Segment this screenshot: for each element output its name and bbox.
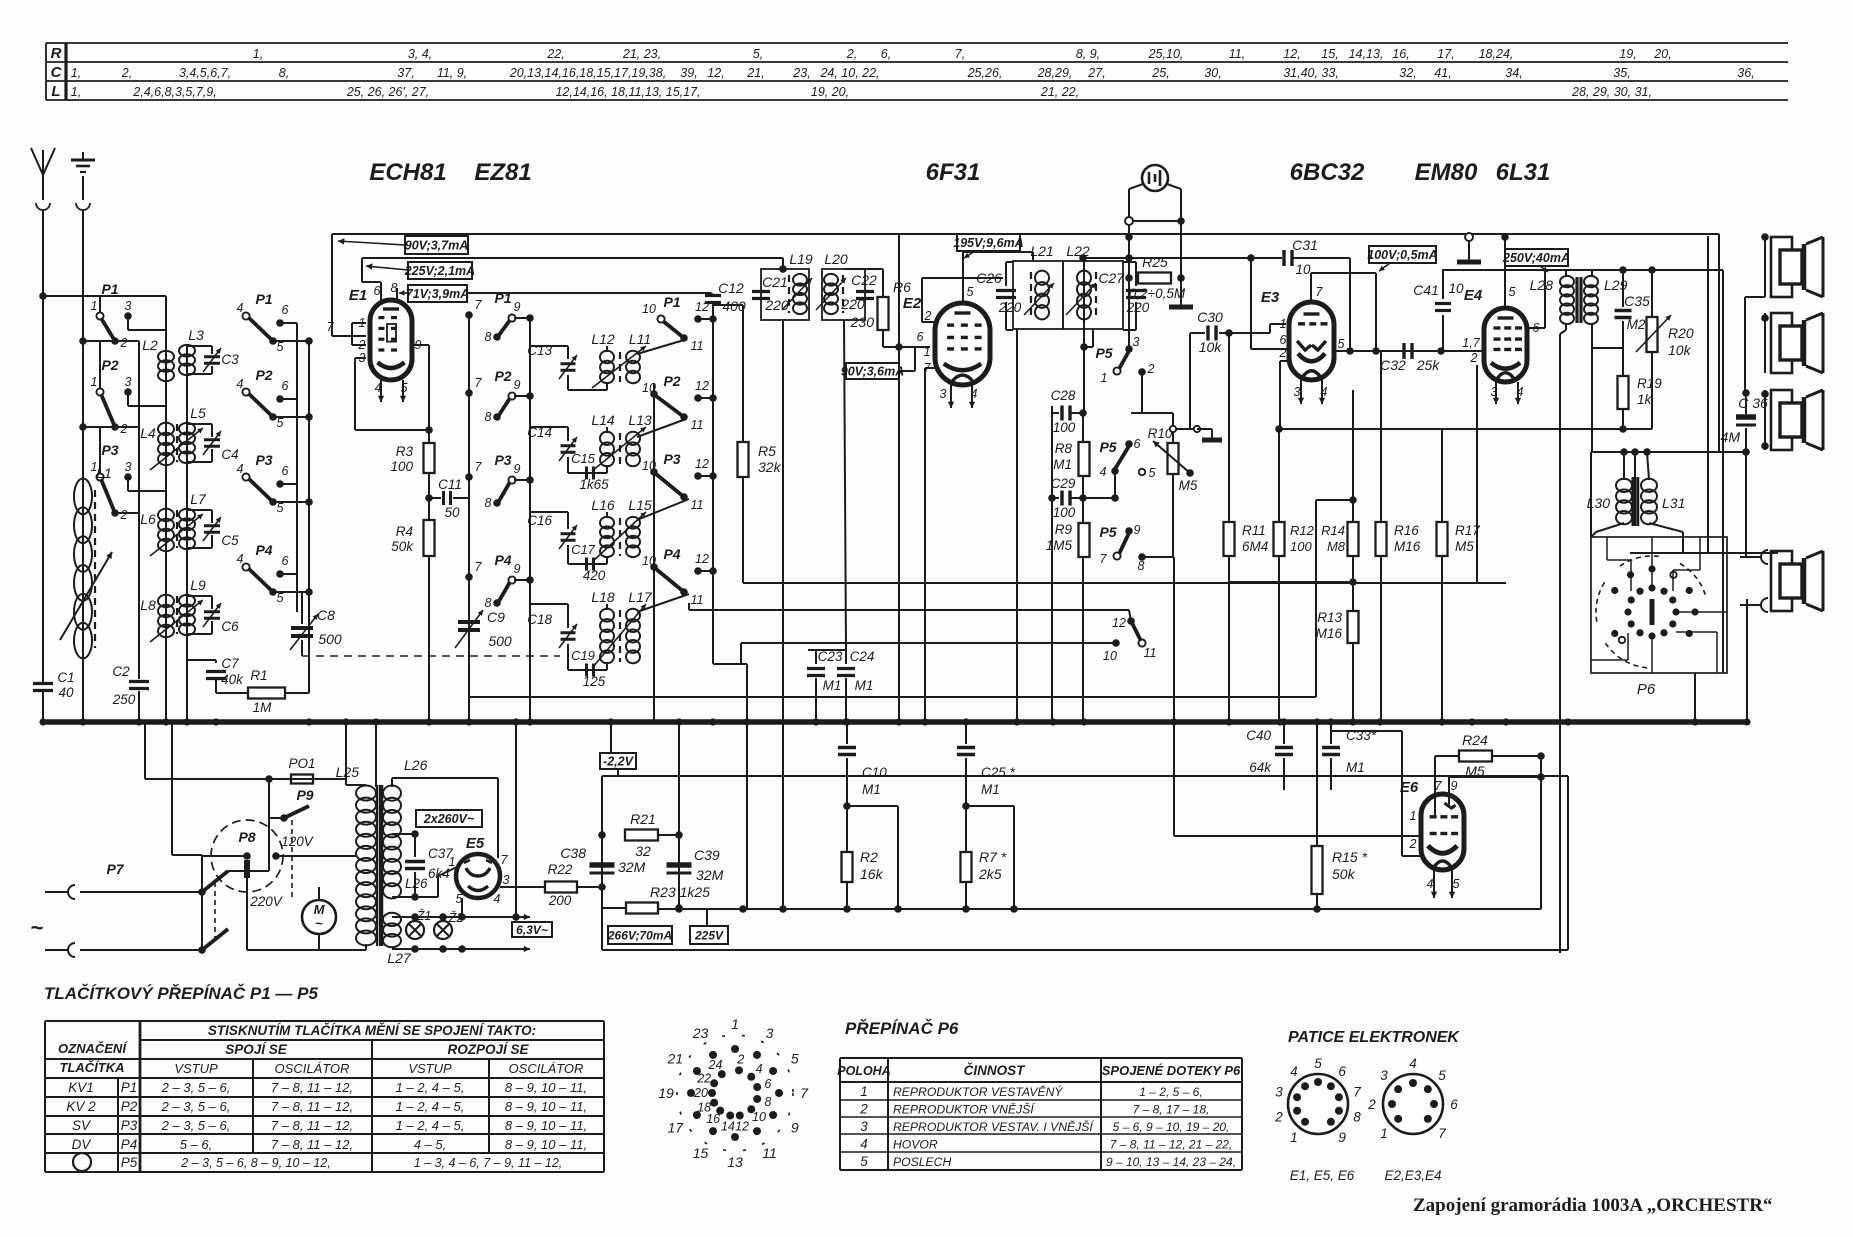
svg-text:32M: 32M	[618, 859, 646, 875]
coil L3	[179, 327, 204, 375]
svg-text:R24: R24	[1462, 732, 1488, 748]
voltage box 195V 9.6mA	[957, 234, 1020, 251]
coil L11	[626, 331, 651, 383]
wire to E2 pin6	[883, 346, 930, 348]
svg-text:L31: L31	[1662, 495, 1685, 511]
socket noval E1 E5 E6	[1274, 1056, 1361, 1145]
E2 labels	[903, 285, 978, 401]
voltage box 250V 40mA	[1505, 249, 1568, 266]
node R24 right	[1537, 752, 1545, 760]
coil L2	[142, 337, 174, 381]
wire L11 to contact 11	[637, 340, 684, 354]
core L6-L7	[176, 510, 178, 548]
coil L20	[824, 251, 848, 314]
svg-text:R14: R14	[1321, 523, 1345, 538]
trimmer capacitor C16	[527, 512, 607, 564]
svg-text:10: 10	[1103, 649, 1117, 663]
socket heptal E2 E3 E4	[1367, 1056, 1458, 1141]
resistor R22	[545, 882, 577, 893]
svg-text:OZNAČENÍ: OZNAČENÍ	[58, 1041, 128, 1056]
R16 to bus	[1380, 556, 1382, 722]
coil L21	[1030, 243, 1053, 319]
svg-text:E4: E4	[1464, 287, 1483, 304]
E1 pin9 stub	[412, 344, 429, 346]
svg-text:P4: P4	[255, 542, 272, 558]
bus drop center	[375, 722, 377, 787]
bias line y776	[602, 775, 1568, 777]
R21 labels	[630, 811, 656, 859]
capacitor C21	[752, 274, 789, 313]
wire C33 to E6 area	[1331, 730, 1402, 732]
switch P2 section d (contacts 10-12-11)	[642, 373, 717, 432]
svg-text:R15 *: R15 *	[1332, 849, 1368, 865]
svg-text:1 – 2, 4 – 5,: 1 – 2, 4 – 5,	[396, 1118, 465, 1133]
coil L9	[179, 577, 206, 635]
svg-text:L1: L1	[96, 465, 112, 481]
svg-text:1M5: 1M5	[1046, 538, 1073, 553]
ground terminal	[71, 152, 95, 210]
wire band line to P5-12	[689, 609, 1129, 611]
svg-text:6,: 6,	[881, 47, 891, 61]
coil L1	[60, 465, 112, 658]
svg-text:11, 9,: 11, 9,	[437, 66, 467, 80]
svg-text:C16: C16	[527, 513, 552, 528]
svg-text:4 – 5,: 4 – 5,	[414, 1137, 447, 1152]
svg-text:E2: E2	[903, 295, 922, 312]
svg-text:12,: 12,	[1283, 47, 1300, 61]
svg-text:9: 9	[1134, 523, 1141, 537]
switch P2 section c (contacts 7-9-8)	[465, 368, 534, 424]
svg-text:39,: 39,	[680, 66, 697, 80]
capacitor C31	[1284, 237, 1318, 277]
svg-text:7: 7	[475, 560, 483, 574]
svg-text:C32: C32	[1380, 357, 1406, 373]
arrow 250V	[1540, 266, 1548, 272]
svg-text:M2: M2	[1627, 317, 1646, 332]
svg-text:8,: 8,	[279, 66, 289, 80]
wire 90V box	[899, 370, 915, 372]
svg-text:3: 3	[125, 460, 132, 474]
svg-text:7 – 8, 17 – 18,: 7 – 8, 17 – 18,	[1133, 1103, 1210, 1117]
voltage box 90V 3.7mA	[405, 236, 468, 254]
svg-text:P2: P2	[494, 368, 511, 384]
svg-text:6L31: 6L31	[1496, 159, 1551, 186]
svg-text:11: 11	[762, 1145, 777, 1161]
R13 to bus	[1352, 643, 1354, 722]
E1 labels	[327, 281, 422, 395]
tuning arrow L6-L7	[150, 514, 203, 556]
capacitor C24	[837, 649, 874, 722]
node R25 left	[1125, 274, 1133, 282]
node C31/E3	[1346, 347, 1354, 355]
svg-text:0,2÷0,5M: 0,2÷0,5M	[1129, 286, 1186, 301]
component usage table frame	[46, 43, 1788, 100]
feedback line A (90V)	[332, 233, 1719, 235]
switch P1 section b (contacts 4-6-5)	[237, 291, 313, 354]
svg-text:12: 12	[695, 379, 709, 393]
svg-text:TLAČÍTKOVÝ PŘEPÍNAČ P1 — P5: TLAČÍTKOVÝ PŘEPÍNAČ P1 — P5	[44, 984, 318, 1003]
capacitor C23	[807, 649, 843, 722]
capacitor C33	[1322, 722, 1377, 790]
resistor R2	[842, 852, 853, 882]
stub 225V box	[706, 909, 708, 926]
svg-text:P5: P5	[1095, 345, 1112, 361]
wire to R12	[1278, 429, 1280, 522]
speaker 2	[1771, 313, 1792, 373]
wire contact-7 rail	[468, 315, 470, 722]
svg-text:R13: R13	[1317, 610, 1342, 625]
svg-text:12: 12	[1112, 616, 1126, 630]
switch P1 section d (contacts 10-12-11)	[642, 294, 717, 353]
svg-text:41,: 41,	[1434, 66, 1451, 80]
wire to PO1 line	[268, 779, 270, 871]
svg-text:E5: E5	[466, 835, 485, 852]
core L16-L15	[619, 518, 621, 556]
R6 labels	[850, 279, 911, 330]
coil L4	[140, 423, 174, 465]
wire contact-12 rail	[712, 303, 714, 664]
svg-text:P5: P5	[1099, 524, 1116, 540]
wire to E1 pin6	[362, 281, 381, 283]
svg-text:L3: L3	[188, 327, 204, 343]
node R6/E2	[895, 343, 903, 351]
node R12 top	[1275, 425, 1283, 433]
svg-text:8 – 9, 10 – 11,: 8 – 9, 10 – 11,	[505, 1099, 587, 1114]
capacitor C19	[571, 648, 606, 689]
svg-text:C11: C11	[438, 477, 462, 492]
svg-text:M1: M1	[823, 678, 842, 693]
svg-text:P5: P5	[1099, 439, 1116, 455]
svg-text:6,3V~: 6,3V~	[516, 923, 548, 937]
svg-text:C24: C24	[850, 649, 875, 664]
svg-text:R21: R21	[630, 811, 656, 827]
R15 labels	[1332, 849, 1368, 882]
trimmer capacitor C5	[187, 510, 239, 548]
switch P4 section d (contacts 10-12-11)	[642, 546, 717, 607]
bus junction dots	[39, 718, 1750, 725]
svg-text:E2,E3,E4: E2,E3,E4	[1384, 1168, 1441, 1183]
tube E2 (6F31)	[935, 303, 990, 385]
transformer core	[377, 785, 381, 946]
grid line to C31	[1083, 257, 1282, 259]
R10 bottom to line8	[1172, 474, 1174, 557]
svg-text:4: 4	[1409, 1056, 1417, 1071]
capacitor C27	[1098, 262, 1149, 330]
R12 labels	[1290, 523, 1315, 554]
switch P1 section c (contacts 7-9-8)	[465, 290, 534, 344]
svg-text:200: 200	[548, 893, 572, 908]
E3 top cap stub	[1310, 273, 1312, 302]
E4 pin2 down	[1476, 365, 1478, 583]
IF transformer L19/L20 box	[761, 269, 865, 320]
wire L17 to contact 11	[637, 594, 689, 612]
svg-text:266V;70mA: 266V;70mA	[607, 928, 672, 942]
HT secondary top	[392, 777, 498, 779]
svg-text:C14: C14	[527, 425, 552, 440]
node C10/R2	[843, 802, 851, 810]
svg-text:11: 11	[691, 593, 704, 607]
svg-text:R4: R4	[396, 524, 413, 539]
svg-text:420: 420	[583, 568, 606, 583]
svg-text:M5: M5	[1179, 478, 1198, 493]
voltage box 90V 3.6mA	[846, 363, 899, 379]
capacitor C22	[840, 272, 877, 312]
svg-text:C2: C2	[112, 664, 130, 679]
wire L22 to C28 rail	[1083, 258, 1085, 413]
ground at R25	[1169, 305, 1193, 310]
variable capacitor C9	[455, 598, 512, 656]
node R22/C38	[598, 883, 606, 891]
svg-text:M16: M16	[1394, 539, 1421, 554]
svg-text:2: 2	[924, 309, 932, 323]
svg-text:1: 1	[449, 855, 456, 869]
mains transformer windings L25	[336, 764, 376, 945]
svg-text:1: 1	[860, 1084, 868, 1099]
node R21 left	[598, 831, 606, 839]
AVC rail from L19	[782, 320, 784, 908]
svg-text:8: 8	[1353, 1110, 1361, 1125]
wire E3 pin5 line	[1334, 350, 1446, 352]
svg-text:220: 220	[840, 296, 865, 312]
secondary winding L26	[383, 757, 428, 898]
svg-text:L8: L8	[140, 597, 156, 613]
wire P8 bottom	[246, 878, 248, 950]
svg-text:2: 2	[736, 1053, 744, 1067]
capacitor C41	[1413, 270, 1464, 351]
svg-text:25, 26, 26', 27,: 25, 26, 26', 27,	[346, 85, 429, 99]
svg-text:12,14,16, 18,11,13, 15,17,: 12,14,16, 18,11,13, 15,17,	[555, 85, 700, 99]
trimmer capacitor C14	[527, 425, 607, 473]
svg-text:250: 250	[112, 692, 136, 707]
svg-text:R1: R1	[250, 668, 267, 683]
wire L13 to contact 11	[637, 419, 686, 437]
wire P7 up	[228, 870, 269, 872]
svg-text:1k65: 1k65	[579, 477, 609, 492]
svg-text:4: 4	[1100, 465, 1107, 479]
R10 top wire	[1131, 412, 1173, 414]
svg-text:OSCILÁTOR: OSCILÁTOR	[509, 1061, 584, 1076]
svg-text:8 – 9, 10 – 11,: 8 – 9, 10 – 11,	[505, 1080, 587, 1095]
svg-text:5 – 6, 9 – 10, 19 – 20,: 5 – 6, 9 – 10, 19 – 20,	[1113, 1120, 1230, 1134]
svg-text:6: 6	[282, 464, 289, 478]
svg-text:E6: E6	[1400, 779, 1419, 796]
wire pin2 up	[921, 278, 923, 322]
voltage box 2x260V	[416, 810, 482, 827]
svg-text:8 – 9, 10 – 11,: 8 – 9, 10 – 11,	[505, 1118, 587, 1133]
svg-text:SPOJENÉ DOTEKY P6: SPOJENÉ DOTEKY P6	[1102, 1063, 1241, 1078]
node R25 right	[1177, 274, 1185, 282]
svg-text:6BC32: 6BC32	[1290, 159, 1365, 186]
svg-text:3: 3	[1380, 1068, 1388, 1083]
svg-text:L: L	[51, 83, 60, 100]
svg-text:10: 10	[642, 302, 656, 316]
capacitor C35	[1615, 266, 1651, 433]
svg-text:250V;40mA: 250V;40mA	[1502, 251, 1570, 265]
wire to E3 pin1	[1270, 323, 1286, 325]
line y909	[658, 908, 1541, 910]
wire pin9 to R3	[428, 345, 430, 443]
wire antenna to C1	[42, 210, 44, 682]
y908 dots	[675, 905, 1321, 913]
capacitor C17	[571, 542, 606, 583]
E3 labels	[1261, 285, 1345, 399]
svg-text:14,13,: 14,13,	[1349, 47, 1384, 61]
svg-text:R20: R20	[1668, 325, 1694, 341]
node L22 bottom	[1080, 343, 1088, 351]
svg-text:3: 3	[1133, 335, 1140, 349]
svg-text:8, 9,: 8, 9,	[1076, 47, 1100, 61]
svg-text:25,26,: 25,26,	[967, 66, 1003, 80]
svg-text:R19: R19	[1637, 376, 1662, 391]
svg-text:1: 1	[924, 345, 931, 359]
svg-text:9: 9	[514, 462, 521, 476]
svg-text:5: 5	[791, 1051, 799, 1067]
svg-text:L18: L18	[591, 589, 615, 605]
svg-text:1: 1	[91, 299, 98, 313]
svg-text:17: 17	[667, 1120, 684, 1136]
svg-text:C22: C22	[851, 272, 877, 288]
node C11	[425, 494, 433, 502]
svg-text:9: 9	[514, 300, 521, 314]
svg-text:40k: 40k	[221, 672, 244, 687]
capacitor C25	[957, 722, 1016, 806]
pushbutton table rows	[66, 1080, 587, 1171]
svg-text:220: 220	[998, 300, 1022, 315]
bottom rail y950	[602, 949, 1568, 951]
svg-text:5 – 6,: 5 – 6,	[180, 1137, 213, 1152]
wire L29 to y452	[1591, 348, 1593, 452]
svg-text:19,: 19,	[1619, 47, 1636, 61]
svg-text:6: 6	[1338, 1064, 1346, 1079]
svg-text:500: 500	[488, 633, 512, 649]
svg-text:4: 4	[494, 892, 501, 906]
switch P1 section a (contacts 1-3-2)	[79, 281, 166, 350]
svg-text:C12: C12	[718, 280, 744, 296]
svg-text:L4: L4	[140, 425, 156, 441]
svg-text:2: 2	[1367, 1097, 1376, 1112]
wire down to C32 line	[1375, 273, 1377, 351]
jack hooks speaker 4	[1740, 545, 1768, 612]
trimmer capacitor C18	[527, 604, 607, 670]
svg-text:R3: R3	[396, 444, 414, 459]
resistor R12	[1274, 522, 1285, 556]
wire to L2 column	[43, 295, 166, 297]
bus drop to L25	[345, 722, 347, 785]
svg-text:L28: L28	[1530, 277, 1554, 293]
svg-text:L13: L13	[628, 412, 652, 428]
svg-text:ECH81: ECH81	[369, 159, 446, 186]
R16 labels	[1394, 523, 1421, 554]
wire pin1 to pin7	[351, 323, 353, 336]
svg-text:R7 *: R7 *	[979, 849, 1007, 865]
svg-text:R: R	[51, 45, 62, 62]
wire R5 to C12 rail	[713, 304, 743, 306]
svg-text:5: 5	[1149, 466, 1156, 480]
svg-text:VSTUP: VSTUP	[408, 1061, 452, 1076]
capacitor C36	[1721, 389, 1768, 452]
R11 labels	[1242, 523, 1268, 554]
coil L6	[140, 509, 174, 551]
svg-text:8: 8	[1138, 559, 1145, 573]
svg-text:20: 20	[693, 1086, 708, 1100]
svg-text:32,: 32,	[1399, 66, 1416, 80]
svg-text:C29: C29	[1051, 476, 1076, 491]
svg-text:10: 10	[1295, 262, 1311, 277]
svg-text:6: 6	[282, 303, 289, 317]
svg-text:2: 2	[120, 422, 128, 436]
svg-text:P1: P1	[121, 1080, 138, 1095]
svg-text:9 – 10, 13 – 14, 23 – 24,: 9 – 10, 13 – 14, 23 – 24,	[1106, 1155, 1236, 1169]
svg-text:KV1: KV1	[68, 1080, 94, 1095]
wire R5 bottom	[742, 477, 744, 583]
svg-text:HOVOR: HOVOR	[893, 1138, 938, 1152]
node R13 top	[1349, 578, 1357, 586]
svg-text:19, 20,: 19, 20,	[811, 85, 849, 99]
potentiometer R10	[1148, 426, 1198, 493]
wire switch column to C2	[138, 341, 140, 679]
svg-text:OSCILÁTOR: OSCILÁTOR	[275, 1061, 350, 1076]
C28 left rail	[1051, 413, 1053, 722]
node jack on line A	[1125, 233, 1133, 241]
E5 labels	[449, 835, 510, 906]
headphone jack circle	[1142, 165, 1168, 191]
svg-text:1: 1	[1290, 1130, 1298, 1145]
svg-text:M1: M1	[862, 782, 881, 797]
resistor R23	[626, 903, 658, 914]
R22 labels	[548, 862, 573, 908]
svg-text:1,: 1,	[71, 66, 81, 80]
wire L3-L9 column	[186, 346, 188, 722]
arrow to 90V line	[338, 241, 405, 245]
coil L7	[179, 491, 207, 549]
trimmer capacitor C13	[527, 343, 607, 390]
node C37 bottom	[411, 893, 419, 901]
svg-text:31,40, 33,: 31,40, 33,	[1283, 66, 1339, 80]
svg-text:7: 7	[800, 1085, 809, 1101]
svg-text:10k: 10k	[1199, 339, 1223, 355]
svg-text:100: 100	[1290, 539, 1312, 554]
svg-text:1M: 1M	[253, 700, 273, 715]
switch P2 section a (contacts 1-3-2)	[79, 341, 166, 436]
coil L14	[591, 412, 615, 466]
wire line A down to E1 pin7	[331, 234, 333, 336]
R13 labels	[1316, 610, 1343, 641]
svg-text:100: 100	[1053, 420, 1076, 435]
wire R16 top	[1380, 351, 1382, 522]
svg-text:C3: C3	[221, 352, 239, 367]
arrow to 225V line	[366, 266, 408, 270]
svg-text:225V: 225V	[694, 928, 724, 942]
wire y452	[1591, 451, 1747, 453]
svg-text:L16: L16	[591, 497, 615, 513]
svg-text:TLAČÍTKA: TLAČÍTKA	[60, 1060, 125, 1075]
wire 8-rail to bus	[1173, 557, 1175, 722]
node center tap	[411, 830, 419, 838]
node E4 anode	[1501, 233, 1509, 241]
voltage box -2.2V	[600, 753, 636, 769]
svg-text:230: 230	[850, 314, 875, 330]
E5 pin1 lead	[437, 876, 439, 897]
svg-text:50k: 50k	[1332, 866, 1356, 882]
svg-text:9: 9	[514, 562, 521, 576]
L29 bottom lead	[1591, 323, 1593, 348]
arrow 100V	[1379, 263, 1390, 271]
svg-text:C6: C6	[221, 619, 239, 634]
node PO1	[265, 775, 273, 783]
E1 pin2 stub	[352, 344, 366, 346]
svg-text:EZ81: EZ81	[474, 159, 531, 186]
E2 pin7 stub	[925, 367, 935, 369]
